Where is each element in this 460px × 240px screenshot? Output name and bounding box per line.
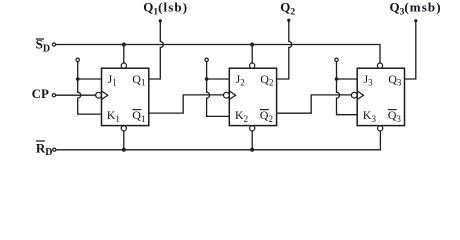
svg-text:CP: CP xyxy=(32,86,49,101)
